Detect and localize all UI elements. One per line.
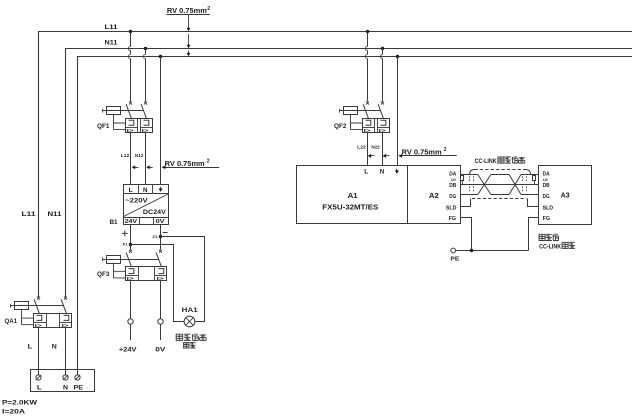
svg-text:CC-LINK: CC-LINK: [475, 159, 498, 165]
junction on PE for B1 ground: [159, 55, 162, 58]
circuit breaker QF2 body box: [363, 119, 390, 133]
cable shield bottom dashed edge: [472, 198, 527, 200]
wire N11 bus (second horizontal line with left drop): [66, 49, 633, 298]
terminal circle 0V: [158, 319, 163, 324]
junction on L11 for QF1: [129, 30, 132, 33]
wire node Z1 to HA1 lamp right side: [161, 237, 205, 322]
svg-text:A1: A1: [348, 193, 358, 200]
circuit breaker QA1 thermal hook pole 2: [64, 315, 69, 320]
svg-text:PE: PE: [74, 384, 84, 391]
wire L11 bus (horizontal top line with left drop to QA1): [39, 32, 633, 298]
power supply B1 input terminal row: [124, 193, 169, 195]
circuit breaker QF2 thermal hook pole 1: [366, 120, 371, 125]
function label chan-xian-dian-yuan (production line power): [176, 334, 183, 340]
circuit breaker QA1 contact cross pole 2: [64, 297, 67, 300]
wire N11 to QF1 pole 2 (hop over PE): [145, 49, 147, 55]
circuit breaker QF3 contact cross pole 1: [129, 250, 132, 253]
circuit breaker QF3 actuator linkage line with end tick: [102, 257, 104, 261]
svg-text:DC24V: DC24V: [143, 209, 167, 216]
circuit breaker QF3 thermal hook pole 1: [129, 269, 134, 274]
wire QF2 pole1 output L22 to A1: [367, 133, 369, 166]
svg-text:L: L: [129, 188, 133, 194]
wire QF3 pole1 output to +24V terminal: [130, 281, 132, 319]
svg-text:N12: N12: [135, 153, 144, 158]
svg-text:N11: N11: [48, 212, 63, 218]
circuit breaker QA1 linkage to trip units: [22, 309, 34, 324]
svg-text:I>: I>: [127, 128, 135, 133]
polarity symbol minus: [163, 232, 168, 234]
arrow from N11 to PE wire: [188, 51, 190, 54]
circuit breaker QF1 switch blade pole 1: [126, 104, 131, 118]
svg-text:N11: N11: [105, 40, 119, 46]
circuit breaker QA1 operator box: [15, 302, 29, 310]
svg-text:N22: N22: [371, 144, 380, 149]
circuit breaker QF2 switch blade pole 1: [363, 104, 368, 118]
svg-text:QA1: QA1: [5, 318, 18, 325]
circuit breaker QF3 internal dividers: [138, 267, 140, 281]
circuit breaker QA1 switch blade pole 1: [34, 299, 39, 313]
svg-text:I>: I>: [127, 276, 135, 281]
circuit breaker QF1 contact cross pole 2: [144, 101, 147, 104]
svg-text:QF2: QF2: [334, 123, 347, 130]
arrow to PE wire at A1: [399, 154, 402, 158]
svg-text:DA: DA: [543, 172, 551, 178]
svg-text:2: 2: [207, 158, 210, 164]
circuit breaker QF3 contact cross pole 2: [159, 250, 162, 253]
svg-text:I>: I>: [364, 128, 372, 133]
wire QA1 pole1 output to terminal L: [38, 328, 40, 375]
svg-text:I>: I>: [62, 323, 70, 328]
svg-text:+24V: +24V: [119, 347, 138, 354]
circuit breaker QA1 body box: [34, 314, 72, 328]
svg-text:CC-LINK: CC-LINK: [539, 244, 562, 250]
label ji-qi-ren (robot): [539, 234, 545, 240]
circuit breaker QF3 switch blade pole 2: [156, 253, 161, 267]
svg-text:110: 110: [451, 178, 456, 182]
wire B1 24V output to node F1: [130, 225, 132, 250]
terminal circle PE: [451, 248, 456, 253]
wire QF2 pole2 output N22 to A1: [382, 133, 384, 166]
wire SLD of A2 to shield: [461, 199, 471, 207]
svg-text:DB: DB: [543, 183, 550, 189]
svg-text:I>: I>: [142, 128, 150, 133]
svg-text:DG: DG: [449, 194, 456, 200]
terminal PE with screw circle: [75, 375, 80, 380]
junction on L11 for QF2: [366, 30, 369, 33]
circuit breaker QF1 linkage to trip units: [114, 114, 126, 129]
svg-text:SLD: SLD: [543, 205, 554, 211]
svg-text:N: N: [63, 384, 68, 391]
wire top run between twists: [491, 174, 509, 176]
svg-text:Z1: Z1: [152, 235, 157, 239]
svg-text:QF1: QF1: [97, 123, 110, 130]
wire FG of A2 down to PE wire: [461, 218, 472, 251]
power supply B1 diagonal separator: [124, 194, 169, 217]
node F1 junction: [129, 243, 132, 246]
circuit breaker QF2 contact cross pole 1: [366, 101, 369, 104]
svg-text:N: N: [143, 188, 148, 194]
power supply B1 outline: [124, 185, 169, 225]
arrow to N22 wire: [384, 155, 389, 157]
PLC A1/A2 combined box: [297, 166, 461, 224]
indicator lamp HA1: [184, 316, 195, 327]
svg-text:2: 2: [207, 6, 210, 12]
svg-text:P=2.0KW: P=2.0KW: [2, 399, 38, 406]
svg-text:F1: F1: [123, 243, 128, 247]
svg-text:FG: FG: [449, 216, 457, 222]
arrow from L11 to N11 wire: [188, 34, 190, 45]
svg-text:SLD: SLD: [446, 205, 457, 211]
arrow to L12 wire: [134, 167, 139, 169]
wire QF1 pole2 output N12 to B1: [145, 133, 147, 185]
svg-text:FX5U-32MT/ES: FX5U-32MT/ES: [322, 205, 378, 212]
svg-text:DG: DG: [543, 194, 550, 200]
circuit breaker QF2 internal dividers: [374, 119, 376, 133]
pin earth of A1: [396, 169, 398, 171]
svg-text:L11: L11: [105, 25, 119, 31]
power supply B1 output terminal row: [124, 217, 169, 219]
circuit breaker QF1 thermal hook pole 1: [129, 120, 134, 125]
wire bottom run between twists: [491, 194, 509, 196]
terminal circle +24V: [128, 319, 133, 324]
svg-text:L11: L11: [22, 212, 37, 218]
cable shield hook left: [470, 170, 475, 175]
svg-text:RV 0.75mm: RV 0.75mm: [165, 161, 205, 168]
circuit breaker QF2 linkage to trip units: [351, 114, 363, 129]
wire below +24V terminal: [130, 324, 132, 340]
wire DB from A2 to A3 (straight through twists): [461, 184, 539, 186]
circuit breaker QF1 switch blade pole 2: [141, 104, 146, 118]
twist crossover 1: [478, 175, 491, 195]
circuit breaker QF2 contact cross pole 2: [381, 101, 384, 104]
svg-text:I>: I>: [379, 128, 387, 133]
arrow to N12 wire: [148, 167, 153, 169]
wire DA to A3: [521, 174, 539, 176]
svg-text:110: 110: [543, 178, 548, 182]
cable shield top dashed edge: [475, 169, 526, 171]
circuit breaker QF1 actuator linkage line with end tick: [102, 109, 104, 113]
junction on N11 for QF1: [144, 47, 147, 50]
circuit breaker QF3 linkage to trip units: [114, 263, 126, 278]
circuit breaker QA1 actuator linkage line with end tick: [10, 304, 12, 308]
svg-text:B1: B1: [110, 219, 119, 226]
terminating resistor A3 side (110 ohm): [534, 175, 536, 185]
wire L11 to QF2 pole 1 (hops over N11 and PE): [367, 32, 369, 47]
svg-text:HA1: HA1: [182, 307, 198, 314]
svg-text:N: N: [52, 344, 57, 351]
svg-text:L22: L22: [357, 144, 366, 149]
wire below 0V terminal: [160, 324, 162, 340]
wire SLD of A3 to shield: [528, 199, 539, 207]
circuit breaker QF2 thermal hook pole 2: [381, 120, 386, 125]
circuit breaker QF2 operator box: [344, 107, 358, 115]
arrow from RV label to L11 wire: [188, 15, 190, 29]
svg-text:24V: 24V: [125, 219, 138, 225]
junction on PE for A1 ground: [396, 55, 399, 58]
function label zhi-shi (indication): [184, 343, 189, 348]
svg-text:L: L: [37, 384, 42, 391]
circuit breaker QF3 thermal hook pole 2: [159, 269, 164, 274]
svg-text:0V: 0V: [156, 219, 165, 225]
svg-text:PE: PE: [450, 257, 460, 263]
svg-text:I=20A: I=20A: [2, 408, 26, 415]
svg-text:N: N: [380, 169, 385, 175]
arrow to PE wire at B1: [162, 165, 165, 169]
circuit breaker QF1 body box: [126, 119, 153, 133]
svg-text:A3: A3: [561, 192, 570, 199]
circuit breaker QF3 switch blade pole 1: [126, 253, 131, 267]
circuit breaker QF3 body box: [126, 267, 167, 281]
circuit breaker QA1 switch blade pole 2: [61, 299, 66, 313]
terminating resistor A2 side (110 ohm): [462, 175, 464, 185]
incoming supply terminal box: [31, 370, 95, 392]
wire PE bus to A1 PLC ground terminal: [397, 57, 399, 166]
wire DG from A2: [461, 194, 478, 196]
svg-text:QF3: QF3: [97, 271, 110, 278]
wire QA1 pole2 output to terminal N: [65, 328, 67, 375]
circuit breaker QA1 contact cross pole 1: [37, 297, 40, 300]
twist crossover 2: [509, 175, 521, 195]
svg-text:I>: I>: [157, 276, 165, 281]
circuit breaker QA1 internal dividers: [46, 314, 48, 328]
circuit breaker QF3 operator box: [107, 256, 121, 264]
svg-text:L12: L12: [121, 153, 130, 158]
wire node F1 to HA1 lamp left side: [131, 245, 185, 322]
wire B1 0V output to node Z1: [160, 225, 162, 250]
wire FG of A3 down to PE wire: [529, 218, 539, 251]
arrow to L22 wire: [369, 155, 374, 157]
polarity symbol plus: [122, 231, 128, 237]
twist marks left pair: [469, 176, 471, 182]
robot CC-LINK module A3 box: [539, 166, 592, 225]
svg-text:DA: DA: [449, 172, 457, 178]
terminal N with screw circle: [63, 375, 68, 380]
twist marks right pair: [522, 176, 524, 182]
pin earth of B1: [160, 187, 162, 189]
svg-text:L: L: [28, 344, 32, 351]
wire QF3 pole2 output to 0V terminal: [160, 281, 162, 319]
cable shield hook right: [525, 170, 530, 175]
svg-text:FG: FG: [543, 216, 551, 222]
svg-text:~220V: ~220V: [125, 197, 148, 204]
circuit breaker QF1 internal dividers: [137, 119, 139, 133]
svg-text:0V: 0V: [155, 347, 166, 354]
circuit breaker QF2 actuator linkage line with end tick: [339, 109, 341, 113]
junction on N11 for QF2: [381, 47, 384, 50]
svg-text:A2: A2: [429, 193, 439, 200]
wire DA from A2: [461, 174, 478, 176]
wire L11 to QF1 pole 1 (hops over N11 and PE): [130, 32, 132, 47]
node Z1 junction: [159, 235, 162, 238]
divider between A1 and A2: [407, 166, 409, 224]
wire QF1 pole1 output L12 to B1: [130, 133, 132, 185]
terminal L with screw circle: [36, 375, 41, 380]
svg-text:2: 2: [444, 147, 447, 153]
wire N11 to QF2 pole 2 (hop over PE): [382, 49, 384, 55]
wire PE bus (third horizontal line with left drop to PE terminal): [78, 57, 633, 376]
circuit breaker QF1 operator box: [107, 107, 121, 115]
svg-text:I>: I>: [35, 323, 43, 328]
circuit breaker QF1 thermal hook pole 2: [144, 120, 149, 125]
wire PE to B1 power supply ground terminal: [160, 57, 162, 185]
junction FG/PE: [470, 249, 473, 252]
wire PE ground run: [456, 250, 529, 252]
circuit breaker QA1 thermal hook pole 1: [37, 315, 42, 320]
circuit breaker QF2 switch blade pole 2: [378, 104, 383, 118]
wire DG to A3: [521, 194, 539, 196]
svg-text:L: L: [364, 169, 368, 175]
circuit breaker QF1 contact cross pole 1: [129, 101, 132, 104]
svg-text:DB: DB: [449, 183, 456, 189]
